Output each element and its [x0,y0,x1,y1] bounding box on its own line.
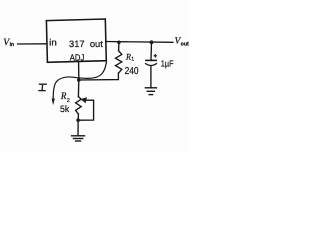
arrowhead R2 wiper [81,97,87,103]
wire output rail [106,41,173,44]
node dot out-R1 [117,41,121,45]
arrowhead of current I [52,99,55,106]
wire R2 wiper loop [78,100,94,120]
svg-text:R: R [60,91,66,102]
current I indicator curve [53,62,106,99]
wire ground lead under R2 [77,120,79,135]
wire C1 top lead [150,42,153,60]
wire C1 bottom lead [150,66,152,87]
svg-text:out: out [90,39,103,49]
svg-text:1µF: 1µF [161,59,174,69]
node dot ADJ-R1 [77,78,81,82]
resistor R1 zigzag [116,51,122,73]
svg-text:317: 317 [69,39,85,49]
wire R2 bottom lead [77,114,79,120]
wire ADJ pin [78,62,80,81]
capacitor C1 top plate [146,59,156,61]
label + polarity of C1 [154,54,158,58]
svg-text:1: 1 [131,57,134,63]
wire R1 bottom to ADJ node [79,73,119,80]
node dot R2 bottom [76,118,80,122]
capacitor C1 curved plate [146,64,157,66]
label I adjustment current [38,84,47,90]
ground under C1 [145,88,156,95]
svg-text:in: in [10,41,15,48]
ground under R2 [72,136,85,141]
svg-text:in: in [49,38,57,48]
regulator U1 317 body [46,19,106,62]
svg-text:ADJ: ADJ [70,53,85,63]
svg-text:5k: 5k [60,104,70,114]
resistor R2 zigzag [76,97,82,114]
wire ADJ node to R2 [77,80,79,97]
svg-text:240: 240 [125,66,139,77]
svg-text:out: out [181,42,189,48]
wire Vin input [18,43,47,45]
wire R1 top lead [118,42,120,51]
node dot out-C1 [150,40,154,44]
